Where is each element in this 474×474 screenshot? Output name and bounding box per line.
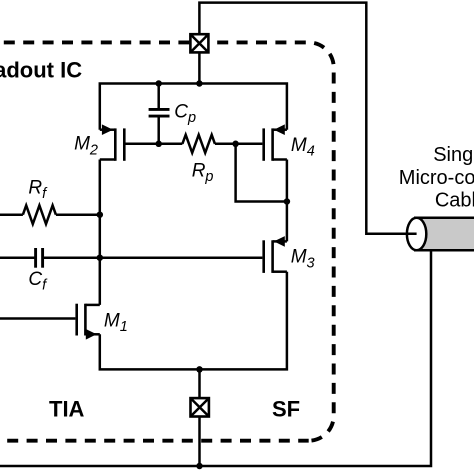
svg-text:M2: M2 bbox=[74, 134, 98, 159]
junction: M4 drain node bbox=[284, 198, 291, 205]
resistor Rp bbox=[182, 135, 215, 153]
svg-text:SF: SF bbox=[272, 397, 300, 422]
resistor Rf bbox=[23, 205, 56, 224]
wire: input to Rf bbox=[0, 213, 23, 216]
label M3 bbox=[291, 247, 315, 272]
junction on VDD rail at Cp bbox=[155, 80, 162, 87]
svg-text:Rf: Rf bbox=[28, 177, 48, 202]
capacitor Cf bbox=[36, 248, 43, 268]
wire: pad P1 to VDD rail bbox=[198, 52, 201, 83]
junction: source rail at bottom pad bbox=[196, 366, 203, 373]
wire: pad P2 to ground rail bbox=[198, 417, 201, 467]
label Cp bbox=[174, 102, 196, 127]
label M4 bbox=[291, 135, 315, 160]
wire: ground rail and cable shield riser bbox=[0, 250, 431, 466]
wire: M4 drain to M3 top bbox=[286, 160, 289, 242]
label Rf bbox=[28, 177, 48, 202]
transistor M3 (source follower) bbox=[264, 236, 287, 273]
junction: Cf / TIA node bbox=[97, 254, 104, 261]
junction on VDD rail at pad wire bbox=[196, 80, 203, 87]
coaxial cable body bbox=[407, 218, 474, 250]
readout IC boundary (dashed, bottom edge) bbox=[0, 439, 309, 443]
readout IC boundary (dashed, top and right edges) bbox=[0, 42, 334, 440]
capacitor Cp bbox=[149, 84, 170, 144]
wire: M3 bottom to source rail and up to M1 source bbox=[100, 272, 287, 370]
svg-text:Rp: Rp bbox=[192, 160, 214, 185]
svg-text:TIA: TIA bbox=[49, 397, 85, 422]
wire: input to M1 gate bbox=[0, 317, 75, 320]
junction: M4 gate node bbox=[232, 141, 239, 148]
transistor M4 (PMOS, mirrored) bbox=[264, 124, 287, 160]
wire: Rf to TIA node bbox=[56, 213, 100, 216]
svg-text:M3: M3 bbox=[291, 247, 315, 272]
wire: node to Rp bbox=[159, 143, 183, 146]
label M2 bbox=[74, 134, 98, 159]
pad P2 (bottom bond pad) bbox=[191, 398, 209, 416]
junction: M2 gate / Cp / Rp node bbox=[155, 141, 162, 148]
pad P1 (top bond pad) bbox=[190, 34, 208, 52]
wire: Cf to M3 gate bbox=[43, 256, 263, 259]
wire: M2 drain down to M1 drain bbox=[99, 160, 102, 305]
label M1 bbox=[104, 310, 128, 335]
junction: Rf / TIA output node bbox=[97, 211, 104, 218]
label Rp bbox=[192, 160, 214, 185]
label Single Micro-coaxial Cable bbox=[399, 144, 474, 212]
svg-text:M4: M4 bbox=[291, 135, 315, 160]
svg-text:M1: M1 bbox=[104, 310, 128, 335]
label TIA bbox=[49, 397, 85, 422]
transistor M1 (NMOS input) bbox=[77, 304, 100, 340]
svg-text:Cp: Cp bbox=[174, 102, 196, 127]
wire: source rail to pad P2 bbox=[198, 369, 201, 398]
wire: VDD rail with drops to M2 and M4 sources bbox=[100, 84, 287, 130]
svg-text:Readout IC: Readout IC bbox=[0, 57, 82, 82]
wire: M4 diode connection (gate to drain) bbox=[236, 144, 287, 202]
svg-text:Cf: Cf bbox=[28, 269, 48, 294]
wire: top net from pad P1 to cable core bbox=[199, 3, 416, 234]
wire: input to Cf bbox=[0, 256, 36, 259]
label SF bbox=[272, 397, 300, 422]
wire: Rp to M4 gate bbox=[215, 143, 263, 146]
label Cf bbox=[28, 269, 48, 294]
transistor M2 (PMOS) bbox=[100, 124, 159, 160]
svg-text:SingleMicro-coaxialCable: SingleMicro-coaxialCable bbox=[399, 144, 474, 212]
label Readout IC bbox=[0, 57, 82, 82]
junction: ground rail at pad wire bbox=[196, 463, 203, 470]
